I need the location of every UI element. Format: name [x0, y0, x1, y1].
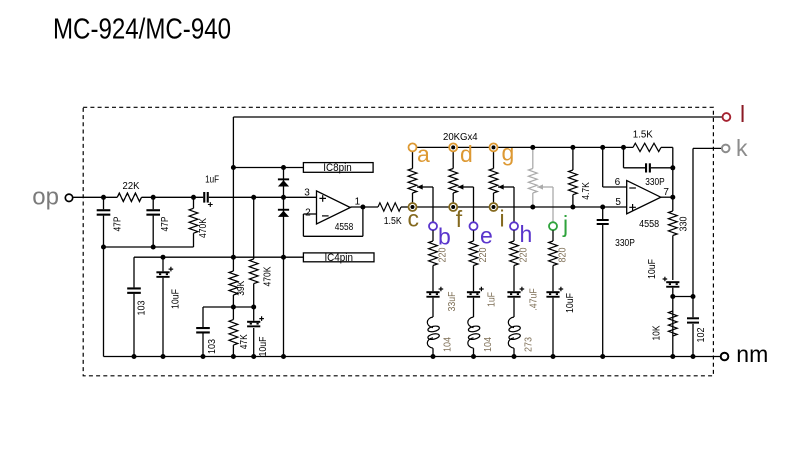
svg-text:103: 103 — [136, 300, 147, 315]
svg-text:104: 104 — [442, 337, 453, 352]
svg-text:47K: 47K — [239, 334, 250, 349]
svg-text:nm: nm — [736, 341, 768, 367]
svg-text:j: j — [562, 211, 568, 237]
svg-text:22K: 22K — [123, 181, 140, 192]
svg-text:op: op — [32, 183, 59, 210]
svg-text:103: 103 — [207, 339, 218, 354]
svg-text:330P: 330P — [615, 238, 635, 249]
svg-text:1uF: 1uF — [205, 175, 219, 186]
svg-text:1uF: 1uF — [487, 292, 498, 307]
svg-text:IC4pin: IC4pin — [324, 252, 353, 264]
svg-text:b: b — [438, 224, 451, 250]
svg-text:47P: 47P — [160, 216, 171, 231]
svg-text:820: 820 — [558, 247, 569, 262]
svg-text:2: 2 — [305, 208, 311, 219]
svg-text:.47uF: .47uF — [528, 288, 539, 311]
svg-text:273: 273 — [523, 337, 534, 352]
svg-text:33uF: 33uF — [447, 292, 458, 312]
svg-text:47P: 47P — [112, 216, 123, 231]
svg-text:10uF: 10uF — [565, 293, 576, 313]
svg-text:330P: 330P — [645, 177, 665, 188]
svg-text:c: c — [408, 205, 420, 231]
svg-text:e: e — [480, 223, 493, 249]
svg-text:330: 330 — [679, 216, 690, 231]
svg-text:470K: 470K — [198, 218, 209, 238]
svg-text:g: g — [502, 140, 515, 166]
svg-text:3: 3 — [304, 188, 310, 199]
svg-text:d: d — [460, 141, 473, 167]
svg-text:10uF: 10uF — [258, 337, 269, 357]
svg-text:i: i — [500, 206, 505, 232]
svg-text:4.7K: 4.7K — [581, 182, 592, 200]
svg-text:6: 6 — [615, 177, 621, 188]
svg-text:470K: 470K — [262, 266, 273, 286]
svg-text:10uF: 10uF — [647, 259, 658, 279]
svg-text:102: 102 — [696, 327, 707, 342]
svg-text:f: f — [456, 206, 463, 232]
svg-text:220: 220 — [478, 247, 489, 262]
svg-text:1.5K: 1.5K — [633, 130, 653, 141]
svg-text:k: k — [736, 135, 748, 161]
svg-text:a: a — [417, 141, 430, 167]
svg-text:l: l — [740, 101, 745, 127]
svg-text:4558: 4558 — [335, 222, 354, 233]
svg-text:1: 1 — [355, 197, 361, 208]
svg-text:104: 104 — [483, 337, 494, 352]
svg-text:1.5K: 1.5K — [384, 216, 402, 227]
svg-text:MC-924/MC-940: MC-924/MC-940 — [53, 14, 231, 46]
svg-text:4558: 4558 — [639, 219, 659, 230]
svg-text:220: 220 — [519, 247, 530, 262]
svg-text:10K: 10K — [651, 325, 662, 340]
svg-text:10uF: 10uF — [170, 289, 181, 309]
svg-text:IC8pin: IC8pin — [323, 162, 352, 174]
svg-text:39K: 39K — [236, 281, 247, 296]
svg-text:5: 5 — [615, 197, 621, 208]
svg-text:h: h — [520, 221, 533, 247]
